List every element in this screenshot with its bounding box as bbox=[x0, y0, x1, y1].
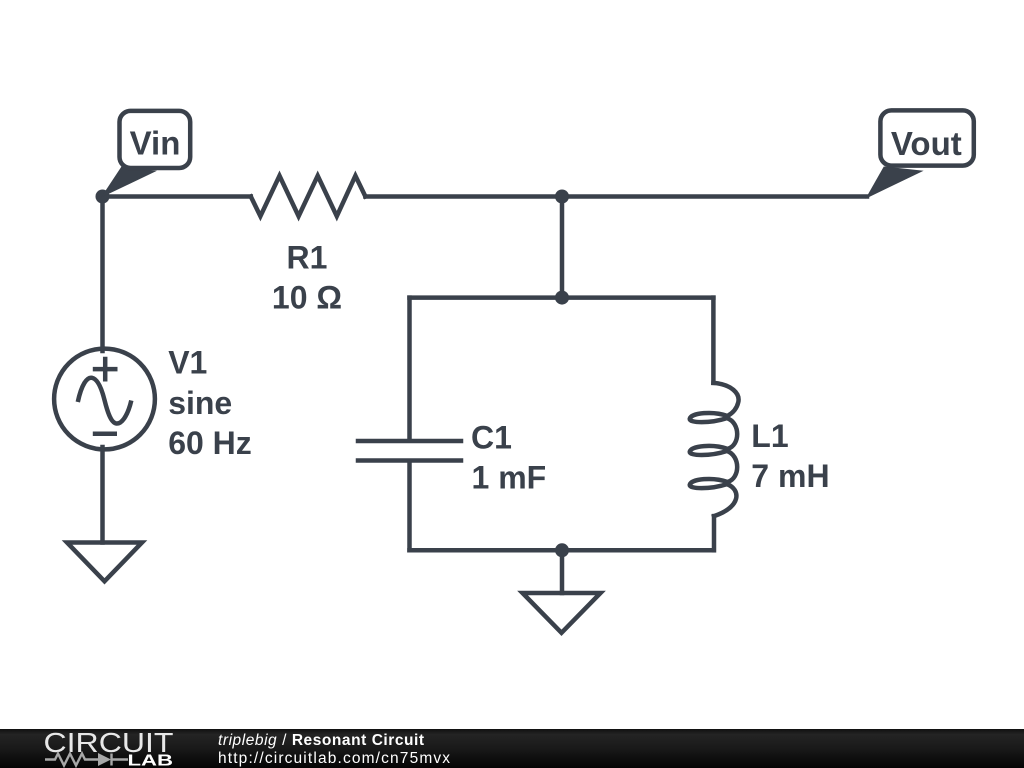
wire: V1 bottom to ground 1 bbox=[100, 447, 105, 543]
capacitor C1 plates bbox=[358, 441, 461, 461]
voltage source V1 circle bbox=[54, 349, 155, 450]
V1 plus sign bbox=[93, 357, 118, 382]
wire: top rail left segment (node A to resistor) bbox=[103, 194, 251, 199]
wire: inductor L1 bottom lead bbox=[712, 516, 717, 550]
svg-text:Vin: Vin bbox=[130, 125, 181, 162]
svg-text:sine: sine bbox=[168, 385, 232, 421]
flag Vout tail bbox=[866, 167, 924, 199]
node B junction dot bbox=[555, 190, 569, 204]
wire: top rail right segment (resistor to Vout tail) bbox=[365, 194, 867, 199]
svg-text:10 Ω: 10 Ω bbox=[272, 280, 342, 316]
ground symbol 2 (below LC tank) bbox=[523, 593, 601, 633]
svg-text:Vout: Vout bbox=[891, 125, 962, 162]
wire: capacitor C1 bottom lead bbox=[407, 463, 412, 551]
V1 sine symbol bbox=[78, 378, 132, 424]
svg-text:7 mH: 7 mH bbox=[751, 458, 829, 494]
svg-text:V1: V1 bbox=[168, 345, 207, 381]
node A junction dot bbox=[96, 190, 110, 204]
ground symbol 1 (below V1) bbox=[67, 543, 142, 582]
flag Vout bubble bbox=[880, 110, 973, 165]
resistor R1 bbox=[251, 176, 366, 216]
wire: node B down to LC top rail bbox=[560, 197, 565, 298]
node C junction dot (LC top) bbox=[555, 291, 569, 305]
svg-text:LAB: LAB bbox=[128, 752, 174, 768]
svg-text:http://circuitlab.com/cn75mvx: http://circuitlab.com/cn75mvx bbox=[218, 750, 451, 767]
flag Vin tail bbox=[101, 167, 157, 198]
V1 minus sign bbox=[93, 431, 117, 436]
wire: LC top rail bbox=[410, 295, 714, 300]
wire: LC bottom rail bbox=[410, 548, 714, 553]
svg-text:R1: R1 bbox=[287, 240, 328, 276]
node D junction dot (LC bottom) bbox=[555, 543, 569, 557]
CircuitLab logo diode triangle bbox=[98, 753, 111, 766]
footer bar bbox=[0, 729, 1024, 768]
flag Vin bubble bbox=[120, 111, 191, 168]
wire: capacitor C1 top lead bbox=[407, 298, 412, 439]
inductor L1 coil bbox=[690, 383, 739, 516]
svg-text:C1: C1 bbox=[471, 420, 512, 456]
wire: inductor L1 top lead bbox=[711, 298, 716, 383]
wire: node A down to V1 top bbox=[100, 197, 105, 352]
wire: ground 2 stub bbox=[560, 550, 565, 593]
svg-text:60 Hz: 60 Hz bbox=[168, 425, 252, 461]
CircuitLab logo resistor-diode line bbox=[45, 754, 128, 766]
svg-text:triplebig / Resonant Circuit: triplebig / Resonant Circuit bbox=[218, 732, 425, 749]
svg-text:1 mF: 1 mF bbox=[472, 460, 547, 496]
svg-text:L1: L1 bbox=[751, 418, 788, 454]
